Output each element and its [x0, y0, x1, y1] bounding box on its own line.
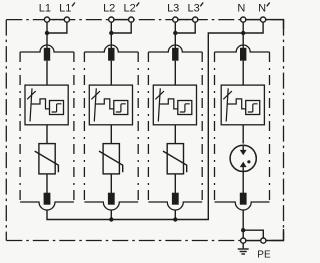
- svg-text:N: N: [237, 3, 245, 15]
- wire: junction down to module top contact: [242, 33, 244, 50]
- wire: N-potential bus collecting L1 L2 L3 varistor outputs: [47, 33, 243, 220]
- wire: disconnector to arrester element: [174, 125, 176, 144]
- bottom plug contact channel L2: [108, 193, 115, 205]
- spark gap bottom electrode arrow: [242, 167, 244, 172]
- wire: PE junction branch to second PE terminal: [243, 230, 263, 240]
- wire: junction down to module top contact: [110, 33, 112, 50]
- module box channel N: top edge with plug bump: [215, 45, 270, 52]
- link blade to thermal element (stepped): [227, 99, 246, 109]
- svg-text:L3: L3: [187, 3, 199, 15]
- top plug contact channel L1: [44, 48, 50, 61]
- module box channel L1: bottom edge with plug bump: [20, 202, 74, 210]
- top plug contact channel N: [240, 48, 246, 61]
- thermal element box: [246, 101, 260, 115]
- disconnector switch blade: [94, 88, 96, 121]
- wire: link between PE terminals on enclosure line: [242, 240, 264, 242]
- wire: top contact to disconnector: [242, 61, 244, 85]
- thermal element box: [50, 101, 64, 115]
- wire: top contact to disconnector: [174, 61, 176, 85]
- link blade to thermal element (stepped): [159, 99, 178, 109]
- terminal N´: [261, 17, 266, 22]
- enclosure border bottom side: [6, 240, 283, 242]
- module box channel L3: top edge with plug bump: [148, 45, 202, 52]
- node: L3-bus junction: [173, 217, 177, 221]
- node: PE junction: [241, 228, 245, 232]
- wire: disconnector to arrester element: [46, 125, 48, 144]
- thermal element step curve: [180, 104, 190, 112]
- terminal L3´: [193, 17, 198, 22]
- terminal N: [241, 17, 246, 22]
- terminal L1´: [64, 17, 69, 22]
- wire: spark gap to bottom contact: [242, 172, 244, 195]
- svg-text:L1: L1: [59, 3, 71, 15]
- spark gap top electrode arrow: [242, 145, 244, 150]
- ground symbol stem: [242, 243, 244, 248]
- wire: varistor to bottom contact: [110, 174, 112, 195]
- bottom plug contact channel N: [240, 193, 247, 205]
- module box channel N: bottom edge with plug bump: [215, 202, 270, 210]
- module box channel L2: left edge (dash-dot): [83, 52, 85, 202]
- wire: N terminal down to junction: [242, 20, 244, 33]
- prime tick of label L2´: [136, 3, 139, 7]
- wire: junction down to module top contact: [46, 33, 48, 50]
- svg-text:PE: PE: [257, 250, 271, 261]
- wire: link between terminals L2 and L2´ on enclosure line: [110, 19, 132, 21]
- thermal element step curve: [52, 104, 62, 112]
- module box channel N: left edge (dash-dot): [214, 52, 216, 202]
- varistor channel L2: [103, 144, 119, 174]
- disconnector switch blade: [226, 88, 228, 121]
- module box channel N: right edge (dash-dot): [269, 52, 271, 202]
- varistor diagonal stroke: [163, 151, 187, 172]
- thermal disconnector box channel N: [221, 85, 264, 125]
- module box channel L2: bottom edge with plug bump: [84, 202, 138, 210]
- module box channel L2: top edge with plug bump: [84, 45, 138, 52]
- wire: L2 bottom contact to bus: [110, 210, 112, 220]
- thermal disconnector box channel L2: [89, 85, 132, 125]
- wire: spark gap output down to PE junction: [242, 210, 244, 241]
- varistor diagonal stroke: [35, 151, 59, 172]
- enclosure border (dash-dot) top side: [6, 19, 283, 21]
- switch blade actuator tick: [223, 91, 232, 99]
- link blade to thermal element (stepped): [95, 99, 114, 109]
- prime tick of label L3´: [200, 3, 203, 7]
- svg-text:N: N: [258, 3, 266, 15]
- wire: disconnector to arrester element: [110, 125, 112, 144]
- thermal disconnector box channel L1: [25, 85, 68, 125]
- varistor channel L1: [39, 144, 55, 174]
- bottom plug contact channel L3: [172, 193, 179, 205]
- enclosure border solid bottom-right corner: [267, 229, 284, 241]
- wire: varistor to bottom contact: [174, 174, 176, 195]
- thermal element step curve: [248, 104, 258, 112]
- wire: L3´ terminal down and left to junction: [175, 20, 195, 33]
- top plug contact channel L3: [172, 48, 178, 61]
- switch blade actuator tick: [155, 91, 164, 99]
- link blade to thermal element (stepped): [31, 99, 50, 109]
- wire: L3 terminal down to junction: [174, 20, 176, 33]
- disconnector switch blade: [30, 88, 32, 121]
- terminal PE (ground side): [241, 238, 246, 243]
- ground symbol bar 1: [238, 248, 249, 250]
- svg-text:L1: L1: [39, 3, 51, 15]
- terminal L1: [44, 17, 49, 22]
- ground symbol bar 2: [240, 251, 247, 253]
- wire: L1´ terminal down and left to junction: [47, 20, 67, 33]
- module box channel L3: right edge (dash-dot): [201, 52, 203, 202]
- module box channel L1: right edge (dash-dot): [73, 52, 75, 202]
- wire: link between terminals L1 and L1´ on enclosure line: [46, 19, 68, 21]
- enclosure border left side: [5, 20, 7, 241]
- wire: junction down to module top contact: [174, 33, 176, 50]
- terminal L2: [109, 17, 114, 22]
- top plug contact channel L2: [108, 48, 114, 61]
- svg-text:L2: L2: [103, 3, 115, 15]
- spark gap trigger dot: [247, 160, 250, 163]
- varistor channel L3: [167, 144, 183, 174]
- bottom plug contact channel L1: [44, 193, 51, 205]
- module box channel L3: left edge (dash-dot): [147, 52, 149, 202]
- terminal L3: [173, 17, 178, 22]
- module box channel L1: left edge (dash-dot): [19, 52, 21, 202]
- wire: N´ terminal down and left to junction: [243, 20, 263, 33]
- module box channel L2: right edge (dash-dot): [137, 52, 139, 202]
- svg-text:L3: L3: [167, 3, 179, 15]
- terminal L2´: [129, 17, 134, 22]
- wire: top contact to disconnector: [46, 61, 48, 85]
- node: junction L3: [173, 31, 177, 35]
- node: L2-bus junction: [109, 217, 113, 221]
- switch blade actuator tick: [91, 91, 100, 99]
- node: junction L2: [109, 31, 113, 35]
- wire: top contact to disconnector: [110, 61, 112, 85]
- wire: L1 terminal down to junction: [46, 20, 48, 33]
- enclosure border right side: [283, 20, 285, 241]
- wire: L3 bottom contact to bus: [174, 210, 176, 220]
- module box channel L1: top edge with plug bump: [20, 45, 74, 52]
- wire: L2 terminal down to junction: [110, 20, 112, 33]
- node: junction L1: [45, 31, 49, 35]
- prime tick of label N´: [267, 3, 270, 7]
- spark gap N-PE: [230, 145, 256, 171]
- module box channel L3: bottom edge with plug bump: [148, 202, 202, 210]
- ground symbol bar 3: [241, 253, 245, 255]
- wire: varistor to bottom contact: [46, 174, 48, 195]
- terminal PE (outgoing): [261, 238, 266, 243]
- svg-text:L2: L2: [123, 3, 135, 15]
- thermal disconnector box channel L3: [153, 85, 196, 125]
- varistor diagonal stroke: [99, 151, 123, 172]
- wire: L2´ terminal down and left to junction: [111, 20, 131, 33]
- thermal element step curve: [116, 104, 126, 112]
- prime tick of label L1´: [72, 3, 75, 7]
- thermal element box: [114, 101, 128, 115]
- node: junction N: [241, 31, 245, 35]
- disconnector switch blade: [158, 88, 160, 121]
- thermal element box: [178, 101, 192, 115]
- wire: link between terminals L3 and L3´ on enclosure line: [174, 19, 196, 21]
- wire: link between terminals N and N´ on enclosure line: [242, 19, 264, 21]
- wire: disconnector to arrester element: [242, 125, 244, 144]
- switch blade actuator tick: [27, 91, 36, 99]
- enclosure border solid top-right corner: [266, 20, 284, 29]
